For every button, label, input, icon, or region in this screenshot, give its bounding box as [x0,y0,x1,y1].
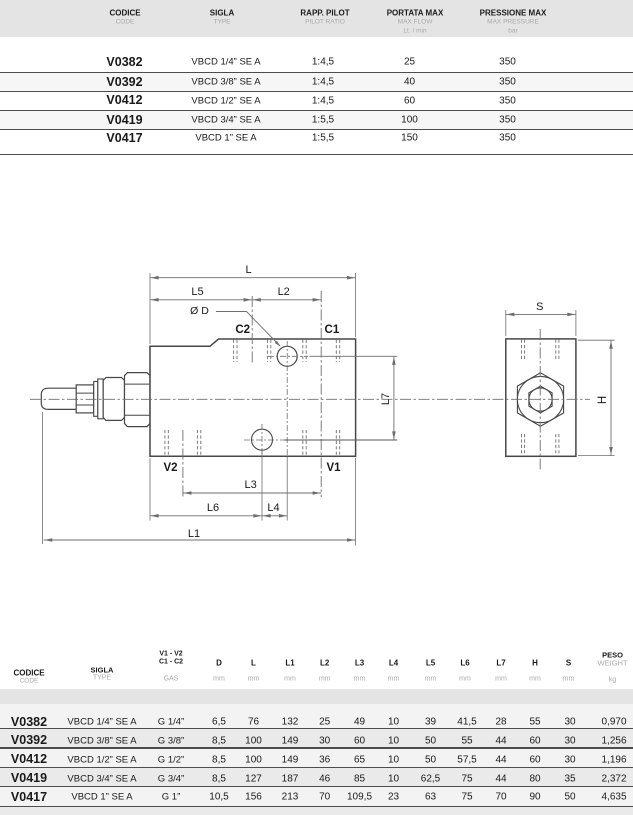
label L3 [244,479,256,491]
port C2 centerline [251,296,253,364]
dimension L6 [150,515,262,517]
label L1 [188,528,200,540]
side view body [506,339,576,456]
hex socket inner [529,386,552,413]
port V2 centerline [182,430,184,497]
row V0382 [106,55,142,69]
hex socket circle [529,388,552,411]
leader OD [216,311,247,313]
bottom table header band [0,689,633,704]
label L2 [278,286,290,298]
port C2 hidden walls [233,340,235,362]
top table header band [0,0,633,37]
dimension L3 [183,492,321,494]
label L5 [191,286,203,298]
label OD [190,305,209,317]
adjustment stem [41,388,76,409]
main centerline [30,398,590,400]
dimension S [506,313,576,315]
bottom header [13,668,44,677]
dimension L2 [252,299,321,301]
dimension L1 [44,539,356,541]
port V2 hidden walls [164,430,166,456]
dimension H [610,340,612,455]
row V0417 dims [11,790,47,804]
side hidden port walls top [521,340,523,361]
lower hole axis lines [261,424,263,454]
hex nut chamfer circle [517,376,563,422]
row V0417 [106,131,142,145]
row V0382 dims [11,715,47,729]
upper hole axis lines [286,341,288,455]
washer [94,382,98,417]
dimension L7 [393,356,395,440]
label L4 [267,502,279,514]
port C1-V1 centerline [320,291,322,497]
label H [597,396,609,404]
dimension L [150,277,356,279]
row V0392 dims [11,733,47,747]
port C1 hidden walls [302,340,304,362]
lower gauge hole [252,429,273,450]
label L6 [207,502,219,514]
side hidden port walls bottom [521,434,523,456]
label C2 [235,324,250,336]
dimension L4 [262,515,288,517]
label V2 [163,462,177,474]
side vertical centerline [539,329,541,472]
valve body outline [150,339,356,456]
label V1 [326,462,340,474]
dimension L5 [150,299,252,301]
row V0412 [106,93,142,107]
port V1 hidden walls [302,430,304,456]
extension lines [149,273,151,344]
upper gauge hole [277,346,297,366]
label L [245,264,251,276]
label S [536,301,543,313]
stem hex nut [76,385,94,413]
cap block [103,378,124,421]
label L7 [380,393,392,405]
label C1 [325,324,340,336]
big hex nut [125,373,151,427]
row V0419 [106,113,142,127]
row V0392 [106,75,142,89]
row V0412 dims [11,752,47,766]
collar [98,379,103,419]
hex nut outer [517,373,563,426]
row V0419 dims [11,771,47,785]
